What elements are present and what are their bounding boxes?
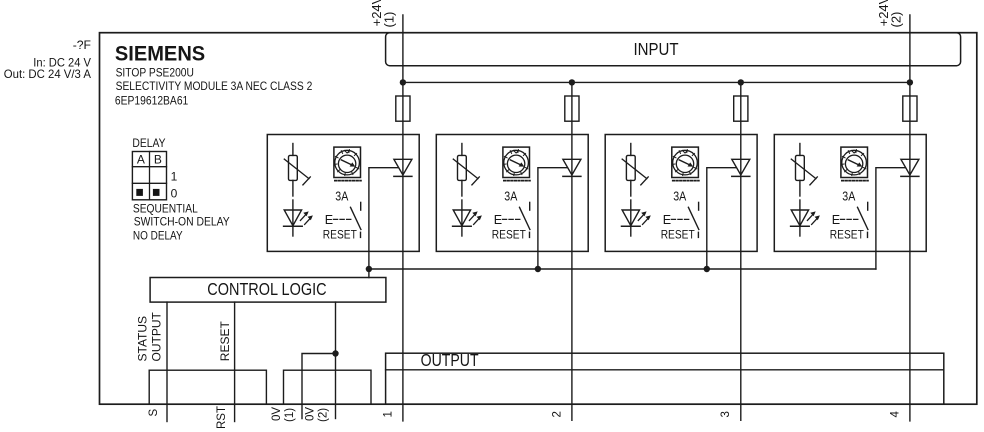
decoupling diode channel 3 xyxy=(732,159,750,176)
channel 1 block outline xyxy=(267,135,419,252)
svg-text:6EP19612BA61: 6EP19612BA61 xyxy=(115,94,188,108)
svg-text:3: 3 xyxy=(720,411,732,417)
node: top bus junction 1 xyxy=(400,79,406,85)
node: top bus junction 4 xyxy=(907,79,913,85)
svg-text:STATUS: STATUS xyxy=(136,316,150,362)
terminal block S / RST xyxy=(149,370,266,404)
svg-text:E: E xyxy=(325,213,333,227)
svg-text:(2): (2) xyxy=(318,408,330,422)
svg-text:0V: 0V xyxy=(305,407,317,421)
resistor (electronic trip element) channel 1 xyxy=(284,144,310,197)
rotary current-setting dial channel 3 xyxy=(672,147,699,181)
svg-text:0: 0 xyxy=(171,186,178,200)
svg-text:3A: 3A xyxy=(504,188,517,203)
INPUT bus bar xyxy=(386,33,961,66)
node: top bus junction 3 xyxy=(738,79,744,85)
svg-text:RESET: RESET xyxy=(830,228,865,242)
manual RESET switch channel 2 xyxy=(502,202,530,237)
svg-text:SITOP PSE200U: SITOP PSE200U xyxy=(116,65,194,79)
svg-text:1: 1 xyxy=(382,411,394,417)
channel 2 block outline xyxy=(436,135,588,252)
manual RESET switch channel 3 xyxy=(671,202,699,237)
svg-text:(1): (1) xyxy=(381,12,396,28)
wire channel 3 drop to output terminal 3 xyxy=(740,82,742,420)
wire: +24V top distribution bus xyxy=(403,81,910,83)
rotary current-setting dial channel 2 xyxy=(503,147,530,181)
svg-text:RST: RST xyxy=(216,406,228,429)
svg-text:OUTPUT: OUTPUT xyxy=(421,350,479,370)
wire: RST reset input xyxy=(234,302,236,421)
svg-text:0V: 0V xyxy=(271,407,283,421)
svg-text:3A: 3A xyxy=(842,188,855,203)
LED status indicator channel 1 xyxy=(284,200,313,236)
svg-text:RESET: RESET xyxy=(218,321,232,362)
svg-text:OUTPUT: OUTPUT xyxy=(149,312,163,362)
node: lower bus junction xyxy=(704,266,710,272)
node: lower bus junction xyxy=(366,266,372,272)
svg-text:E: E xyxy=(494,213,502,227)
OUTPUT bus bar xyxy=(386,353,944,404)
svg-text:SELECTIVITY MODULE 3A NEC CLAS: SELECTIVITY MODULE 3A NEC CLASS 2 xyxy=(116,79,313,93)
svg-text:SIEMENS: SIEMENS xyxy=(115,41,205,65)
wire +24V (2) input drop to output terminal 4 xyxy=(909,15,911,421)
channel 3 block outline xyxy=(605,135,757,252)
wire: channel 1 switched output to lower bus xyxy=(369,168,399,278)
LED status indicator channel 2 xyxy=(453,200,482,236)
svg-text:A: A xyxy=(137,153,145,167)
wire +24V (1) input drop to output terminal 1 xyxy=(402,15,404,421)
wire: channel 4 switched output to lower bus xyxy=(876,168,906,269)
svg-text:Out: DC 24 V/3 A: Out: DC 24 V/3 A xyxy=(4,67,91,81)
fuse F4 xyxy=(903,96,917,121)
wire channel 2 drop to output terminal 2 xyxy=(571,82,573,420)
svg-text:3A: 3A xyxy=(673,188,686,203)
LED status indicator channel 3 xyxy=(622,200,651,236)
CONTROL LOGIC box xyxy=(150,278,386,303)
terminal block 0V (1) / 0V (2) xyxy=(284,370,372,404)
svg-text:DELAY: DELAY xyxy=(132,136,165,150)
manual RESET switch channel 1 xyxy=(333,202,361,237)
DIP switch position B=0 (filled) xyxy=(153,189,160,196)
svg-text:RESET: RESET xyxy=(492,228,527,242)
svg-text:4: 4 xyxy=(889,411,901,418)
svg-text:NO DELAY: NO DELAY xyxy=(133,228,183,242)
wire: channel 3 switched output to lower bus xyxy=(707,168,737,269)
channel 4 block outline xyxy=(774,135,926,252)
svg-text:SWITCH-ON DELAY: SWITCH-ON DELAY xyxy=(134,214,230,228)
svg-text:(2): (2) xyxy=(888,12,903,28)
node: top bus junction 2 xyxy=(569,79,575,85)
node: 0V junction xyxy=(332,350,338,356)
svg-text:2: 2 xyxy=(551,411,563,417)
rotary current-setting dial channel 4 xyxy=(841,147,868,181)
LED status indicator channel 4 xyxy=(791,200,820,236)
svg-text:B: B xyxy=(154,153,162,167)
fuse F1 xyxy=(396,96,410,121)
DELAY DIP-switch table xyxy=(132,152,166,200)
fuse F3 xyxy=(734,96,748,121)
svg-text:INPUT: INPUT xyxy=(633,39,678,59)
decoupling diode channel 4 xyxy=(901,159,919,176)
node: lower bus junction xyxy=(535,266,541,272)
resistor (electronic trip element) channel 2 xyxy=(453,144,479,197)
decoupling diode channel 1 xyxy=(394,159,412,176)
rotary current-setting dial channel 1 xyxy=(334,147,361,181)
svg-text:1: 1 xyxy=(171,170,178,184)
svg-text:CONTROL LOGIC: CONTROL LOGIC xyxy=(207,279,326,299)
wire: status output S xyxy=(166,302,168,421)
fuse F2 xyxy=(565,96,579,121)
DIP switch position A=0 (filled) xyxy=(136,189,143,196)
resistor (electronic trip element) channel 3 xyxy=(622,144,648,197)
decoupling diode channel 2 xyxy=(563,159,581,176)
svg-text:E: E xyxy=(832,213,840,227)
module outline box xyxy=(100,33,977,405)
svg-text:(1): (1) xyxy=(284,408,296,422)
svg-text:S: S xyxy=(148,409,160,417)
svg-text:3A: 3A xyxy=(335,188,348,203)
svg-text:RESET: RESET xyxy=(661,228,696,242)
svg-text:E: E xyxy=(663,213,671,227)
svg-text:RESET: RESET xyxy=(323,228,358,242)
wire: lower control bus linking channel switches xyxy=(369,268,876,270)
wire: channel 2 switched output to lower bus xyxy=(538,168,568,269)
resistor (electronic trip element) channel 4 xyxy=(791,144,817,197)
svg-text:-?F: -?F xyxy=(73,38,91,52)
wire: 0V (2) xyxy=(335,302,337,418)
wire: 0V (1) branch xyxy=(302,354,336,419)
manual RESET switch channel 4 xyxy=(840,202,868,237)
